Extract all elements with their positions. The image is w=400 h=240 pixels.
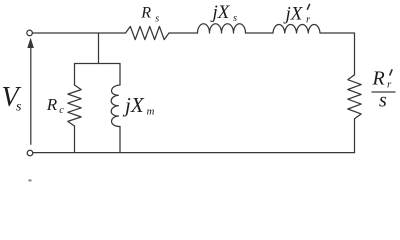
wire Rc branch lower [74, 126, 76, 153]
svg-text:s: s [233, 13, 237, 24]
svg-text:s: s [16, 100, 22, 115]
terminal top-left [27, 30, 33, 36]
inductor jXr' [273, 25, 320, 33]
wire shunt top bar [75, 63, 121, 65]
resistor Rs [126, 26, 170, 39]
resistor Rc [68, 85, 81, 126]
svg-text:s: s [379, 90, 387, 112]
svg-text:R: R [46, 95, 58, 114]
wire Rs to jXs [169, 32, 198, 34]
svg-text:jX: jX [122, 93, 145, 117]
voltage arrow Vs head [27, 38, 34, 48]
svg-text:R: R [372, 67, 385, 89]
terminal bottom-left [27, 150, 33, 156]
wire top right corner [320, 33, 355, 75]
svg-text:r: r [387, 79, 392, 91]
inductor jXm [111, 85, 120, 127]
svg-text:R: R [140, 5, 151, 22]
svg-text:jX: jX [210, 2, 231, 23]
wire right rail lower [354, 119, 356, 153]
fraction bar [372, 91, 396, 93]
svg-text:m: m [147, 105, 155, 117]
svg-text:c: c [59, 105, 64, 116]
svg-text:s: s [155, 13, 159, 24]
stray ink mark bottom-left [28, 179, 31, 181]
resistor Rr'/s [348, 75, 361, 119]
wire top rail left [33, 32, 126, 34]
inductor jXs [198, 24, 246, 33]
svg-text:jX: jX [283, 3, 304, 24]
wire jXs to jXr' [246, 32, 274, 34]
wire shunt stem [98, 33, 100, 64]
wire bottom rail [33, 152, 355, 154]
wire jXm branch upper [119, 64, 121, 86]
svg-text:r: r [306, 15, 311, 26]
wire Rc branch upper [74, 64, 76, 86]
voltage arrow Vs line [30, 46, 32, 145]
wire jXm branch lower [119, 127, 121, 153]
